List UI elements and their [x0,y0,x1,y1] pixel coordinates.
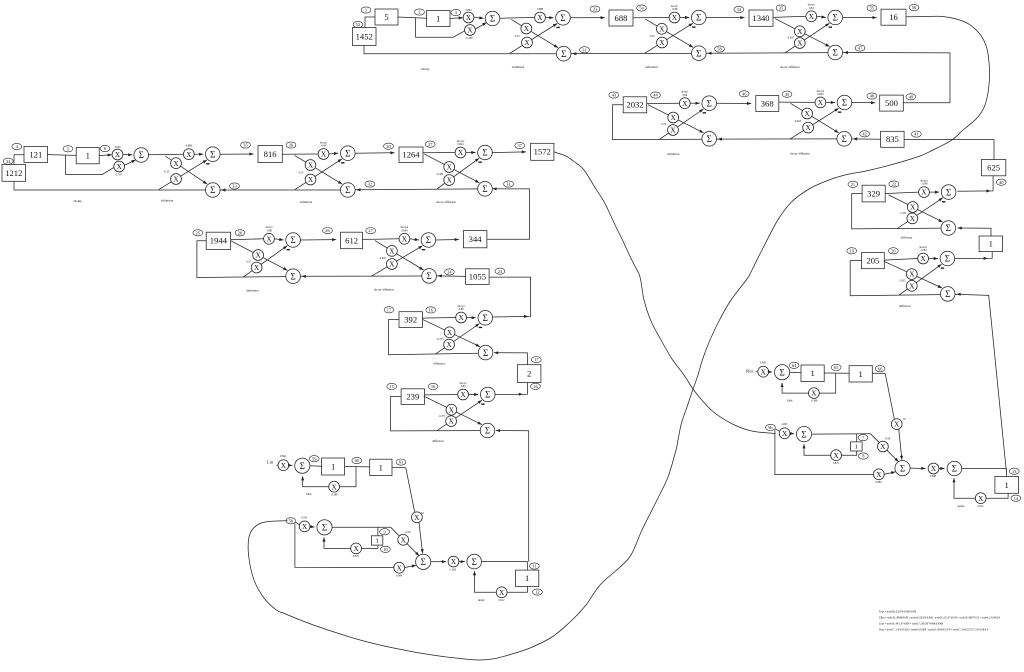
svg-text:1.031: 1.031 [900,212,907,215]
svg-text:XRin = node18_49088/0.08 + nod: XRin = node18_49088/0.08 + node16_62024/… [879,616,1001,619]
edge label 54 [637,5,647,11]
wire bottom cluster to sum239 [496,429,529,562]
multiplier X chomp1 top [463,12,474,23]
summer r3def2 top [341,146,356,161]
wire d205 top [884,259,917,261]
edge label 5 [63,146,73,152]
edge label 49 [906,94,916,100]
svg-text:-0.405: -0.405 [794,120,802,123]
box 1 [370,459,392,475]
svg-text:X: X [255,252,261,260]
svg-text:Σ: Σ [560,13,565,23]
svg-text:52: 52 [356,22,360,27]
edge label 11 [530,563,540,569]
wire d392 fall diagonal [422,319,480,346]
svg-text:X: X [659,25,665,33]
edge label 16 [531,383,541,389]
svg-text:835: 835 [886,134,899,144]
svg-text:decay diffusion: decay diffusion [374,287,394,291]
wire bl3 to delay [481,562,527,571]
svg-text:1: 1 [525,573,529,583]
wire sum to 500 [852,101,875,104]
wire r2def rise diagonal [660,109,704,139]
wire Lin diag b [419,523,424,554]
multiplier X d239 rise [446,416,457,427]
wire Rin out [872,372,885,374]
multiplier X 63 right [891,419,902,430]
multiplier X d239 top [458,389,469,400]
wire sum to box1 Rin [790,371,801,373]
wire sum to 344 [436,238,459,241]
multiplier X r1def1 rise [522,37,533,48]
wire r1def2 X to sum [680,16,689,19]
wire Lin fb left [301,476,329,487]
svg-text:X: X [659,39,665,47]
multiplier X d329 top [919,187,930,198]
svg-text:decay diffusion: decay diffusion [436,200,456,204]
multiplier X r4dd fall [387,246,398,257]
svg-text:0.842: 0.842 [280,455,287,458]
box 1 [851,442,863,451]
box 1 [801,365,824,382]
svg-text:-0.25: -0.25 [164,171,170,174]
arrowhead into sum205 bottom [957,293,961,296]
edge label 27 [366,228,376,234]
svg-text:X: X [880,443,886,451]
edge label 60 [352,457,362,463]
wire r2def top [647,102,680,104]
wire r2dd top [779,101,815,103]
svg-text:X: X [876,471,882,479]
wire Rin diag a [885,373,894,418]
wire 121 to box1 [48,154,77,157]
svg-text:X: X [446,341,452,349]
svg-text:0.25: 0.25 [650,35,655,38]
multiplier X r2dd top [815,97,826,108]
svg-text:Σ: Σ [210,149,215,159]
svg-text:Σ: Σ [696,13,701,23]
summer d205 bottom [940,287,955,302]
edge label 19 [847,248,857,254]
svg-text:Σ: Σ [561,49,566,59]
multiplier X r1dd fall [794,26,805,37]
wire sum239 to box2 [495,383,527,395]
wire 500 loop to row1 [843,53,951,103]
wire 1572 to right cluster (long curve) [554,152,776,434]
svg-text:X: X [804,110,810,118]
wire bl delay out [362,545,378,548]
box 1264 [399,147,423,163]
edge label 10 [381,546,391,552]
box 625 [981,160,1005,176]
wire r4dd X to sum [410,238,419,241]
wire br delay2 out [986,493,1008,498]
svg-text:Σ: Σ [483,348,488,358]
multiplier X bl tap [394,562,405,573]
svg-text:X: X [402,235,408,243]
box 1 [427,11,451,27]
wire sum to box1 Lin [310,465,322,467]
svg-text:Σ: Σ [945,254,950,264]
multiplier X r3def2 rise [305,174,316,185]
wire 1055 to sum [436,275,465,278]
edge label 6 [100,145,110,151]
svg-text:X: X [186,151,192,159]
wire r2dd rise diagonal [790,108,839,139]
edge label 66 [875,366,885,372]
wire r3dd fall diagonal [424,154,479,183]
svg-text:0.888: 0.888 [186,145,193,148]
svg-text:5: 5 [384,12,388,22]
box 239 [401,389,424,405]
wire 835 to sum [852,138,881,140]
svg-text:X: X [811,390,817,398]
arrowhead into sum row3 c [492,187,496,190]
wire blX to sum2 [459,560,465,563]
wire row4 bus mid [300,275,421,277]
svg-text:-0.188: -0.188 [810,400,818,403]
wire d329 top [885,192,918,194]
svg-text:0.844: 0.844 [817,93,824,96]
multiplier X d392 top [456,312,467,323]
edge label 12 [533,589,543,595]
summer bl1 [317,520,332,535]
edge label 34 [734,6,744,12]
multiplier X Lin [278,460,289,471]
minus sign r2def [703,112,706,113]
svg-text:X: X [910,215,916,223]
minus sign r3dd [478,162,481,163]
multiplier X r3def1 fall [171,158,182,169]
multiplier X d239 fall [446,404,457,415]
svg-text:-0.108: -0.108 [466,37,474,40]
wire brX to sum2 [939,467,945,470]
edge label 2 [415,9,425,15]
wire r4dd top [363,238,400,241]
multiplier X d392 rise [444,339,455,350]
wire r3def2 X to sum [329,152,338,155]
wire row2 bus mid [717,138,837,140]
svg-text:Σ: Σ [426,271,431,281]
svg-text:X: X [978,495,984,503]
svg-text:0.545: 0.545 [301,517,308,520]
wire lowX to sum row3 [125,160,136,165]
wire r3dd rise diagonal [437,158,479,189]
multiplier X r3dd top [455,147,466,158]
wire r4dd rise diagonal [371,246,423,277]
wire sum to 1340 [706,16,745,19]
wire br fall [870,434,898,462]
wire X to sum row3 [123,153,132,156]
svg-text:Σ: Σ [952,464,957,474]
svg-text:diffusion: diffusion [432,439,444,443]
arrowhead on box1r wire [984,257,988,260]
svg-text:X: X [401,536,407,544]
svg-text:fdbk: fdbk [787,399,793,403]
edge label 32 [365,181,375,187]
svg-text:Σ: Σ [490,14,495,24]
svg-text:Σ: Σ [801,429,806,439]
svg-text:Σ: Σ [300,461,305,471]
svg-text:X: X [448,418,454,426]
svg-text:delay: delay [958,504,965,508]
arrowhead into sum row2 b [853,137,857,140]
svg-text:1572: 1572 [534,147,551,157]
multiplier X r2dd fall [802,108,813,119]
svg-text:121: 121 [29,149,42,159]
wire r2dd fall diagonal [791,103,839,133]
svg-text:Xout = node29_0/2974/0.988/4.0: Xout = node29_0/2974/0.988/4.008 [879,610,917,613]
minus sign d329 [942,201,945,202]
svg-text:392: 392 [404,315,417,325]
wire 121 to 1212 [14,155,24,165]
svg-text:816: 816 [264,149,278,159]
svg-text:-0.188: -0.188 [331,493,339,496]
wire row1 bus mid2 [706,52,828,55]
arrowhead into sum row3 b [356,188,360,191]
summer r2def bottom [702,132,717,147]
svg-text:Σ: Σ [485,426,490,436]
edge label 37 [515,142,525,148]
wire d239 X to sum [469,393,479,396]
wire box1r to sum329 [958,227,992,237]
svg-text:decay diffusion: decay diffusion [790,152,810,156]
svg-text:X: X [920,255,926,263]
svg-text:1: 1 [855,444,858,451]
summer r1dd bottom [828,45,843,60]
wire sum to 368 [717,102,752,105]
edge label 9 [380,529,390,535]
wire d392 top [422,317,455,320]
wire r3dd top [423,152,455,154]
edge label 7 [858,435,868,441]
wire r3def2 rise diagonal [295,159,342,190]
svg-text:diffusion: diffusion [901,235,913,239]
minus sign d205 [941,268,944,269]
wire blX to sum [310,525,315,528]
wire Lin X to sum [288,464,292,467]
summer r4def bottom [286,269,301,284]
wire r2def fall diagonal [648,105,704,133]
box 1212 [2,165,26,182]
svg-text:chomp: chomp [421,67,430,71]
wire 329 feedback bus [852,194,941,229]
svg-text:X: X [909,282,915,290]
svg-text:205: 205 [866,256,879,266]
edge label 65 [831,364,841,370]
wire Lin stub [276,464,277,466]
svg-text:612: 612 [345,235,358,245]
arrowhead into sum row1 c [844,51,848,54]
svg-text:2: 2 [418,10,420,15]
svg-text:X: X [389,261,395,269]
box 1944 [206,232,230,249]
svg-text:1.035: 1.035 [899,279,906,282]
svg-text:X: X [266,235,272,243]
arrowhead on 625 wire [986,189,990,192]
edge label 22 [889,181,899,187]
box 205 [862,253,885,269]
multiplier X r2def fall [668,112,679,123]
svg-text:-1.787: -1.787 [115,173,123,176]
svg-text:344: 344 [469,234,483,244]
wire r1def2 top [633,17,669,19]
svg-text:Rin: Rin [746,368,753,373]
svg-text:Σ: Σ [946,223,951,233]
edge label 64 [789,362,799,368]
wire box1 to X row3 [99,154,112,157]
wire brX to sum [790,432,794,435]
wire d329 X to sum [929,191,939,194]
svg-text:X: X [467,27,473,35]
edge label 26 [235,230,245,236]
arrowhead into sum row2 a [718,138,722,141]
wire r1dd fall diagonal [775,19,830,47]
box 1055 [466,269,490,285]
svg-text:X: X [447,177,453,185]
summer d329 top [941,185,956,200]
minus sign r4def [287,249,290,250]
box 392 [399,312,422,328]
multiplier X r1def1 top [535,12,546,23]
multiplier X d329 fall [907,202,918,213]
summer br3 [947,461,962,476]
wire chomp3 lower path [66,155,114,174]
summer r1def2 bottom [692,46,707,61]
svg-text:-0.405: -0.405 [787,37,795,40]
multiplier X br fb2 [975,493,986,504]
svg-text:-0.375: -0.375 [438,415,446,418]
box 1572 [531,143,554,160]
svg-text:Σ: Σ [946,187,951,197]
svg-text:X: X [466,14,472,22]
wire sum to 816 [220,153,254,156]
box 368 [756,96,779,112]
minus sign r3def1 [206,163,209,164]
edge label 4 [12,143,22,149]
summer r1def1 top [556,10,571,25]
wire row2 bus left [613,105,702,140]
summer r3dd top [478,145,493,160]
summer r2dd top [837,95,852,110]
svg-text:1: 1 [331,461,335,471]
arrowhead into sum row4 b [438,274,442,277]
box 16 [881,9,906,25]
svg-text:X: X [809,13,815,21]
multiplier X r4def top [264,233,275,244]
wire r1def2 fall diagonal [645,19,693,48]
svg-text:X: X [537,14,543,22]
multiplier X bl fall [398,534,409,545]
svg-text:0.25: 0.25 [661,123,666,126]
edge label 3 [451,9,461,15]
svg-text:X: X [921,189,927,197]
wire r4def X to sum [274,238,283,241]
svg-text:X: X [308,176,314,184]
multiplier X bl out [448,556,459,567]
summer Lin [295,458,310,473]
svg-text:definition: definition [161,199,174,203]
edge label 52 [353,21,363,27]
box 1 [516,570,539,586]
svg-text:decay diffusion: decay diffusion [780,65,800,69]
multiplier X d205 top [918,253,929,264]
multiplier X r1dd rise [794,38,805,49]
svg-text:11: 11 [532,564,536,569]
svg-text:31: 31 [582,47,586,52]
multiplier X Rin [758,366,769,377]
box 816 [258,146,282,163]
edge label 35 [241,142,251,148]
wire br3 to delay [962,469,1007,477]
box 835 [881,131,905,147]
wire bl delay2 out [507,587,527,593]
svg-text:Lin: Lin [267,460,274,465]
wire Lin diag a [406,468,415,512]
svg-text:X: X [451,558,457,566]
svg-text:0.843: 0.843 [465,9,472,12]
svg-text:-0.58: -0.58 [405,531,411,534]
summer r4def top [286,233,301,248]
svg-text:definition: definition [300,200,313,204]
svg-text:X: X [447,329,453,337]
svg-text:Σ: Σ [139,150,144,160]
svg-text:X: X [797,40,803,48]
multiplier X r1def1 fall [521,23,532,34]
svg-text:Σ: Σ [483,313,488,323]
box 2032 [623,97,647,113]
edge label 43 [609,92,619,98]
svg-text:31: 31 [506,182,510,187]
multiplier X d205 rise [906,280,917,291]
svg-text:X: X [353,545,359,553]
box 121 [24,147,48,163]
svg-text:Σ: Σ [482,148,487,158]
wire r3def2 fall diagonal [295,155,343,184]
svg-text:0.25: 0.25 [299,172,304,175]
svg-text:1: 1 [859,369,863,379]
svg-text:-0.88: -0.88 [266,229,272,232]
edge label 1 [361,7,371,13]
svg-text:Σ: Σ [779,367,784,377]
svg-text:-0.88: -0.88 [672,8,678,11]
svg-text:0.88: 0.88 [682,94,687,97]
svg-text:X: X [931,465,937,473]
box 2 [517,365,541,383]
edge label 45 [782,91,792,97]
svg-text:1: 1 [365,8,367,13]
svg-text:Σ: Σ [421,557,426,567]
edge label 48 [867,93,877,99]
box 1 [979,236,1002,252]
edge label 36 [286,142,296,148]
svg-text:Σ: Σ [696,49,701,59]
svg-text:0.84: 0.84 [461,385,466,388]
edge label 42 [860,131,870,137]
svg-text:Σ: Σ [900,463,905,473]
svg-text:X: X [173,176,179,184]
summer r2dd bottom [837,132,852,147]
multiplier X r4def fall [253,250,264,261]
wire d239 fall diagonal [424,396,482,425]
multiplier X r3dd fall [444,162,455,173]
summer r3def2 bottom [341,183,356,198]
box 1340 [749,10,773,26]
svg-text:X: X [254,264,260,272]
svg-text:definition: definition [246,289,259,293]
multiplier X bl fb2 [496,587,507,598]
multiplier X chomp1 low [465,25,476,36]
